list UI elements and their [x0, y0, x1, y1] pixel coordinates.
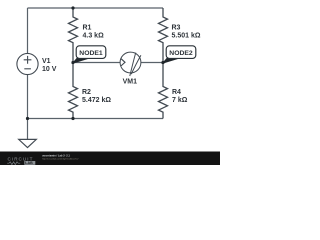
- svg-text:LAB: LAB: [25, 161, 33, 165]
- wire left rail upper: [27, 8, 29, 54]
- resistor R3: [159, 8, 168, 63]
- svg-text:NODE2: NODE2: [169, 50, 193, 57]
- wire middle left (node to voltmeter): [73, 62, 120, 64]
- svg-text:10 V: 10 V: [42, 66, 57, 73]
- wire left rail lower: [27, 75, 29, 119]
- junction dot top: [71, 6, 74, 9]
- resistor R4: [159, 63, 168, 119]
- watermark logo CIRCUIT LAB: [7, 157, 35, 166]
- svg-text:5.472 kΩ: 5.472 kΩ: [82, 97, 111, 104]
- svg-text:5.501 kΩ: 5.501 kΩ: [172, 32, 201, 39]
- svg-text:VM1: VM1: [123, 79, 138, 86]
- resistor R2: [69, 63, 78, 119]
- svg-text:R3: R3: [172, 24, 181, 31]
- ground: [19, 139, 37, 147]
- wire ground lead: [27, 119, 29, 140]
- svg-text:R2: R2: [82, 89, 91, 96]
- junction dot node2: [161, 61, 164, 64]
- resistor R1: [69, 8, 78, 63]
- wire top rail: [28, 7, 164, 9]
- watermark bar: [0, 152, 220, 166]
- svg-text:R1: R1: [83, 24, 92, 31]
- node NODE2 flag: [163, 46, 196, 63]
- voltage source V1: [17, 53, 38, 74]
- wire bottom rail: [28, 118, 164, 120]
- junction dot bottom mid: [71, 117, 74, 120]
- svg-text:R4: R4: [172, 89, 181, 96]
- voltmeter VM1: [120, 52, 141, 76]
- junction dot bottom left: [26, 117, 29, 120]
- junction dot node1: [71, 61, 74, 64]
- svg-text:7 kΩ: 7 kΩ: [172, 97, 188, 104]
- svg-text:http://circuitlab.com/c6g7ms4k: http://circuitlab.com/c6g7ms4kbsv7w/: [42, 158, 79, 161]
- svg-text:V1: V1: [42, 58, 51, 65]
- svg-text:avseriamin / Lab 2- 2.1: avseriamin / Lab 2- 2.1: [42, 153, 70, 157]
- node NODE1 flag: [73, 46, 106, 63]
- svg-text:NODE1: NODE1: [79, 50, 103, 57]
- wire middle right (voltmeter to node): [141, 62, 163, 64]
- svg-text:4.3 kΩ: 4.3 kΩ: [83, 32, 105, 39]
